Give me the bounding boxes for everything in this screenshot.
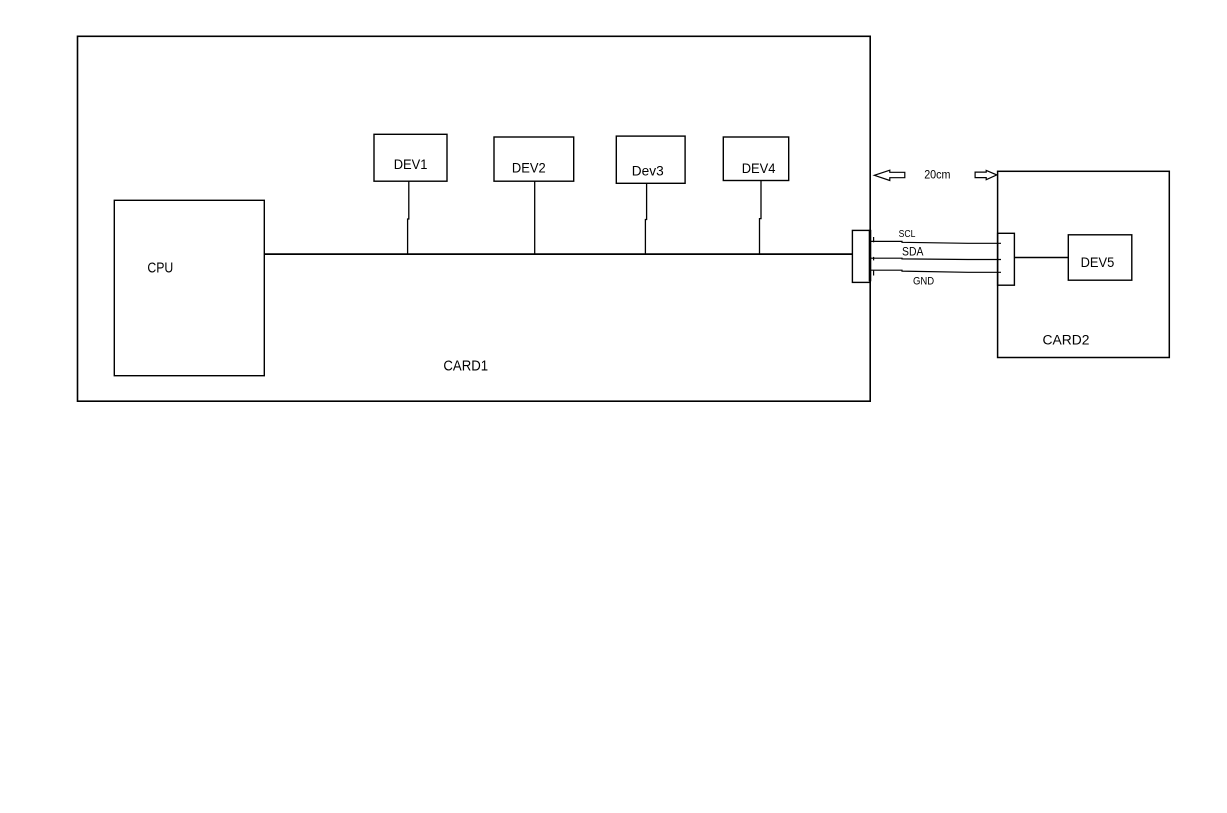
svg-text:20cm: 20cm bbox=[924, 168, 950, 182]
svg-text:DEV5: DEV5 bbox=[1081, 254, 1115, 270]
wire stub DEV2 to bus bbox=[534, 181, 536, 254]
svg-text:CPU: CPU bbox=[147, 260, 173, 276]
wire I2C bus from CPU to connector J1 bbox=[264, 253, 852, 255]
svg-text:DEV4: DEV4 bbox=[742, 160, 776, 176]
block Dev3 bbox=[616, 136, 685, 183]
card CARD1 outline bbox=[78, 36, 871, 401]
card CARD2 outline bbox=[998, 171, 1170, 357]
dimension arrow left (20cm) bbox=[874, 170, 905, 180]
pin tick GND at J1 bbox=[873, 271, 875, 276]
wire stub Dev3 to bus bbox=[645, 183, 646, 254]
connector J1 thick contact bar bbox=[869, 230, 872, 281]
connector J1 on CARD1 edge bbox=[852, 230, 870, 282]
block CPU bbox=[114, 200, 264, 375]
svg-text:SDA: SDA bbox=[902, 246, 924, 258]
svg-text:DEV2: DEV2 bbox=[512, 160, 546, 176]
svg-text:SCL: SCL bbox=[899, 229, 916, 240]
wire connector J2 to DEV5 bbox=[1014, 257, 1068, 259]
block DEV2 bbox=[494, 137, 574, 181]
pin tick SCL at J1 bbox=[873, 237, 875, 242]
wire SDA between connectors bbox=[871, 258, 1001, 259]
svg-text:Dev3: Dev3 bbox=[632, 162, 664, 178]
wire stub DEV1 to bus bbox=[408, 181, 409, 254]
block DEV1 bbox=[374, 134, 447, 181]
svg-text:CARD1: CARD1 bbox=[443, 357, 488, 374]
dimension arrow right (20cm) bbox=[975, 170, 997, 179]
connector J2 on CARD2 edge bbox=[998, 233, 1015, 285]
svg-text:CARD2: CARD2 bbox=[1043, 333, 1090, 349]
pin tick SDA at J1 bbox=[873, 257, 875, 261]
block DEV5 bbox=[1068, 235, 1132, 280]
block DEV4 bbox=[723, 137, 788, 181]
wire stub DEV4 to bus bbox=[760, 181, 762, 255]
svg-text:DEV1: DEV1 bbox=[394, 156, 428, 172]
wire GND between connectors bbox=[871, 270, 1001, 272]
svg-text:GND: GND bbox=[913, 275, 935, 287]
wire SCL between connectors bbox=[871, 241, 1001, 243]
